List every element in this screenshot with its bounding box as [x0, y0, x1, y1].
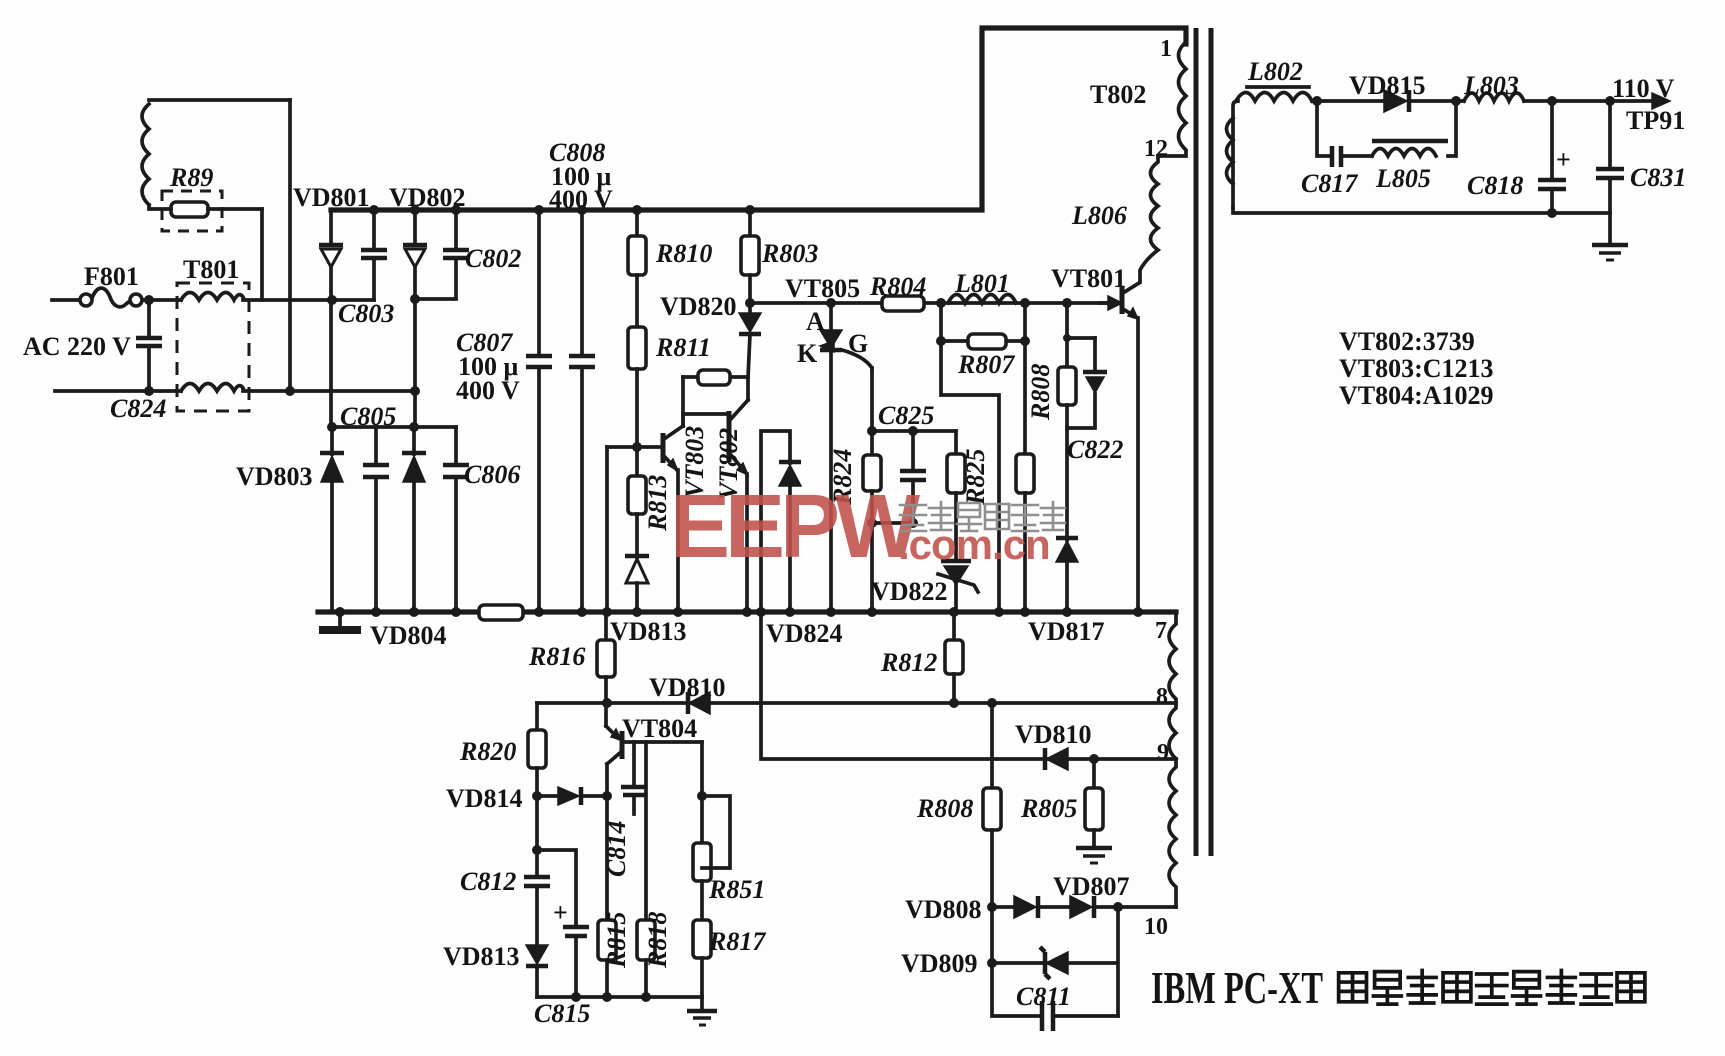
diode VD803 — [236, 427, 344, 612]
svg-text:R810: R810 — [655, 239, 712, 268]
svg-text:R805: R805 — [1020, 794, 1077, 823]
svg-text:C825: C825 — [878, 401, 934, 430]
resistor R811 — [628, 327, 711, 369]
inductor L801 — [948, 269, 1016, 303]
resistor R815 — [598, 796, 631, 997]
svg-text:G: G — [848, 329, 868, 358]
resistor R816 — [528, 612, 615, 726]
svg-text:L803: L803 — [1463, 71, 1519, 100]
resistor R803 — [741, 210, 818, 313]
transistor VT802 — [683, 377, 748, 612]
resistor R820 — [459, 730, 546, 876]
diode VD801 — [293, 183, 370, 427]
diode VD810 (lower) — [1015, 720, 1092, 770]
diode VD810 (upper) — [649, 673, 726, 714]
transistor VT803 — [607, 426, 709, 612]
svg-text:110 V: 110 V — [1612, 74, 1675, 103]
svg-text:1: 1 — [1160, 36, 1172, 62]
svg-text:R808: R808 — [1026, 364, 1055, 421]
wire VT805 row — [750, 301, 1108, 305]
svg-text:VD817: VD817 — [1028, 617, 1105, 646]
svg-text:L805: L805 — [1375, 164, 1431, 193]
capacitor C818 — [1467, 101, 1571, 213]
degaussing coil — [142, 104, 149, 205]
svg-text:C824: C824 — [110, 394, 166, 423]
svg-text:C802: C802 — [465, 244, 521, 273]
svg-text:VD813: VD813 — [443, 942, 520, 971]
inductor L805 (with core) — [1372, 141, 1448, 193]
node dots — [144, 96, 1615, 1002]
svg-text:VD803: VD803 — [236, 462, 313, 491]
wire VD809 row — [992, 907, 1118, 1016]
svg-text:R816: R816 — [528, 642, 585, 671]
EEPW watermark logo — [670, 477, 1050, 577]
wire stub to C815 — [537, 850, 576, 926]
zener VD822 — [871, 561, 978, 612]
svg-text:7: 7 — [1155, 618, 1167, 644]
svg-text:VD809: VD809 — [901, 949, 978, 978]
diode VD802 — [389, 183, 466, 427]
ground (VT804 block) — [687, 997, 717, 1025]
capacitor C805 — [340, 402, 396, 612]
wire top DC bus — [331, 28, 1186, 210]
wire output bottom rail — [1233, 208, 1610, 213]
wire pin9 feed — [761, 612, 1176, 759]
resistor below R807 — [1016, 303, 1034, 612]
wire R89 to AC live — [260, 209, 264, 300]
svg-text:C817: C817 — [1301, 169, 1358, 198]
wire bottom bus — [318, 609, 1176, 614]
ground (output) — [1592, 213, 1628, 260]
transistor VT801 — [1051, 264, 1139, 612]
inductor L806 — [1071, 156, 1158, 282]
svg-text:R817: R817 — [708, 927, 766, 956]
svg-text:VT804: VT804 — [622, 714, 697, 743]
svg-text:VD814: VD814 — [446, 784, 523, 813]
diode VD813 (mid) — [610, 556, 687, 646]
svg-text:R811: R811 — [655, 333, 711, 362]
svg-text:T802: T802 — [1090, 80, 1146, 109]
ground (R805) — [1076, 848, 1112, 863]
transformer T802 primary winding — [1090, 36, 1186, 162]
svg-text:VT803:C1213: VT803:C1213 — [1339, 354, 1494, 383]
svg-text:12: 12 — [1144, 136, 1168, 162]
svg-text:VD804: VD804 — [370, 621, 447, 650]
svg-text:R803: R803 — [761, 239, 818, 268]
svg-text:C822: C822 — [1067, 435, 1123, 464]
wire AC neutral line — [55, 389, 415, 393]
title: IBM PC-XT monitor power supply circuit — [1151, 962, 1645, 1013]
resistor R817 — [693, 920, 766, 997]
svg-text:+: + — [1556, 145, 1571, 174]
diode VD807 — [1053, 872, 1130, 918]
wire AC live line — [52, 298, 374, 302]
svg-text:9: 9 — [1157, 740, 1169, 766]
capacitor C814 — [602, 742, 647, 877]
wire R813-VD813 — [635, 514, 639, 557]
wire left rail (pin8 row down) — [535, 703, 539, 730]
thyristor VT805 — [785, 274, 872, 612]
svg-text:VT802:3739: VT802:3739 — [1339, 327, 1475, 356]
diode VD820 — [660, 292, 761, 378]
wire degauss loop right side — [288, 100, 292, 391]
svg-text:C818: C818 — [1467, 171, 1523, 200]
svg-text:VD807: VD807 — [1053, 872, 1130, 901]
svg-text:VD801: VD801 — [293, 183, 370, 212]
wire VD808 row (pin 10) — [992, 905, 1176, 909]
svg-text:VT804:A1029: VT804:A1029 — [1339, 381, 1494, 410]
svg-text:L806: L806 — [1071, 201, 1127, 230]
svg-text:VT801: VT801 — [1051, 264, 1126, 293]
diode VD817 — [1028, 538, 1105, 646]
svg-text:EEPW: EEPW — [670, 477, 920, 577]
resistor R805 — [1020, 759, 1103, 846]
svg-text:VD808: VD808 — [905, 895, 982, 924]
wire R813 base rail — [605, 447, 609, 612]
capacitor C806 — [443, 427, 520, 612]
svg-text:VD810: VD810 — [649, 673, 726, 702]
resistor R810 — [628, 210, 712, 275]
resistor R812 — [880, 612, 963, 703]
resistor R825 — [947, 431, 990, 558]
svg-text:R851: R851 — [708, 875, 765, 904]
transformer T801 (line filter, dashed box) — [177, 255, 249, 411]
transformer T802 secondary winding 7-8 — [1155, 612, 1176, 710]
fusible resistor on bus — [479, 605, 523, 620]
zener VD809 — [901, 947, 1068, 979]
svg-text:C806: C806 — [464, 460, 520, 489]
resistor R89 (PTC, dashed) — [149, 163, 262, 231]
svg-text:C815: C815 — [534, 999, 590, 1028]
inductor L803 — [1463, 71, 1524, 101]
wire bottom rail of VT804 block — [537, 995, 702, 999]
diode VD808 — [905, 895, 1038, 924]
capacitor C807 — [456, 210, 552, 612]
svg-text:L802: L802 — [1247, 57, 1303, 86]
svg-text:VD824: VD824 — [766, 619, 843, 648]
svg-text:R815: R815 — [602, 912, 631, 969]
svg-text:R820: R820 — [459, 737, 516, 766]
resistor R813 — [628, 475, 672, 532]
wire degauss loop top — [149, 98, 290, 102]
capacitor C824 — [110, 300, 166, 423]
resistor R851 — [693, 742, 765, 920]
transistor VT804 — [606, 714, 702, 796]
wire C805 rail — [332, 425, 456, 429]
capacitor C803 — [338, 210, 394, 328]
capacitor C825 — [878, 401, 934, 523]
wire R811-R813 rail — [635, 369, 639, 476]
svg-text:T801: T801 — [183, 255, 239, 284]
svg-text:VT805: VT805 — [785, 274, 860, 303]
svg-text:C812: C812 — [460, 867, 516, 896]
resistor R808 — [1026, 303, 1095, 540]
capacitor C802 — [415, 210, 521, 299]
capacitor C808 — [549, 138, 613, 612]
wire gate to C825 row — [870, 368, 874, 431]
svg-text:K: K — [797, 339, 818, 368]
resistor R808 (lower) — [916, 703, 1001, 907]
wire output arrow — [1612, 74, 1685, 135]
diode VD824 — [761, 431, 843, 648]
svg-text:R812: R812 — [880, 648, 937, 677]
svg-text:R825: R825 — [961, 449, 990, 506]
transformer T802 secondary winding 8-9 — [1157, 703, 1176, 766]
svg-text:VD813: VD813 — [610, 617, 687, 646]
capacitor C811 — [992, 963, 1118, 1031]
svg-text:.com.cn: .com.cn — [898, 521, 1050, 568]
svg-text:VD820: VD820 — [660, 292, 737, 321]
text transistor types — [1339, 327, 1494, 410]
svg-text:TP91: TP91 — [1626, 106, 1685, 135]
capacitor C817 — [1301, 146, 1358, 198]
wire R810-R811 — [635, 275, 639, 327]
svg-text:C803: C803 — [338, 299, 394, 328]
svg-text:VD810: VD810 — [1015, 720, 1092, 749]
capacitor C822 — [1067, 338, 1123, 464]
svg-text:C805: C805 — [340, 402, 396, 431]
svg-text:AC 220 V: AC 220 V — [23, 332, 131, 361]
svg-text:R89: R89 — [169, 163, 213, 192]
svg-text:A: A — [806, 307, 825, 336]
svg-text:F801: F801 — [84, 262, 139, 291]
diode VD813 (lower) — [443, 942, 548, 997]
inductor L802 — [1227, 57, 1313, 208]
resistor R824 — [828, 431, 913, 612]
svg-text:400 V: 400 V — [456, 376, 520, 405]
svg-text:R804: R804 — [869, 272, 926, 301]
resistor (collector top) — [683, 370, 748, 426]
transformer T802 core — [1194, 28, 1199, 856]
svg-text:C811: C811 — [1016, 982, 1071, 1011]
capacitor C815 (polarized) — [534, 898, 590, 1028]
diode VD804 — [370, 427, 447, 650]
wire C817/L805 loop — [1317, 101, 1456, 156]
wire C825 row — [872, 429, 956, 433]
ground (main) — [319, 612, 361, 630]
resistor R804 — [869, 272, 926, 311]
watermark chinese (gray) — [900, 502, 1065, 531]
svg-text:10: 10 — [1144, 914, 1168, 940]
capacitor C812 — [460, 867, 550, 945]
diode VD815 — [1349, 71, 1426, 112]
svg-text:R808: R808 — [916, 794, 973, 823]
svg-text:+: + — [553, 898, 568, 927]
resistor R807 — [941, 303, 1025, 612]
diode VD814 — [446, 784, 607, 813]
resistor R818 — [637, 742, 672, 997]
fuse F801 — [80, 262, 142, 307]
capacitor C831 — [1596, 101, 1686, 213]
svg-text:C831: C831 — [1630, 163, 1686, 192]
svg-text:VD822: VD822 — [871, 577, 948, 606]
svg-text:R818: R818 — [643, 912, 672, 969]
svg-text:IBM PC-XT: IBM PC-XT — [1151, 962, 1323, 1013]
svg-text:L801: L801 — [954, 269, 1010, 298]
svg-text:8: 8 — [1156, 684, 1168, 710]
wire output top rail — [1312, 99, 1652, 103]
svg-text:R807: R807 — [957, 350, 1015, 379]
svg-text:R813: R813 — [643, 475, 672, 532]
transformer T802 secondary winding 9-10 — [1144, 759, 1176, 940]
svg-text:VD815: VD815 — [1349, 71, 1426, 100]
wire VD810 row (pin 8) — [537, 701, 1176, 705]
